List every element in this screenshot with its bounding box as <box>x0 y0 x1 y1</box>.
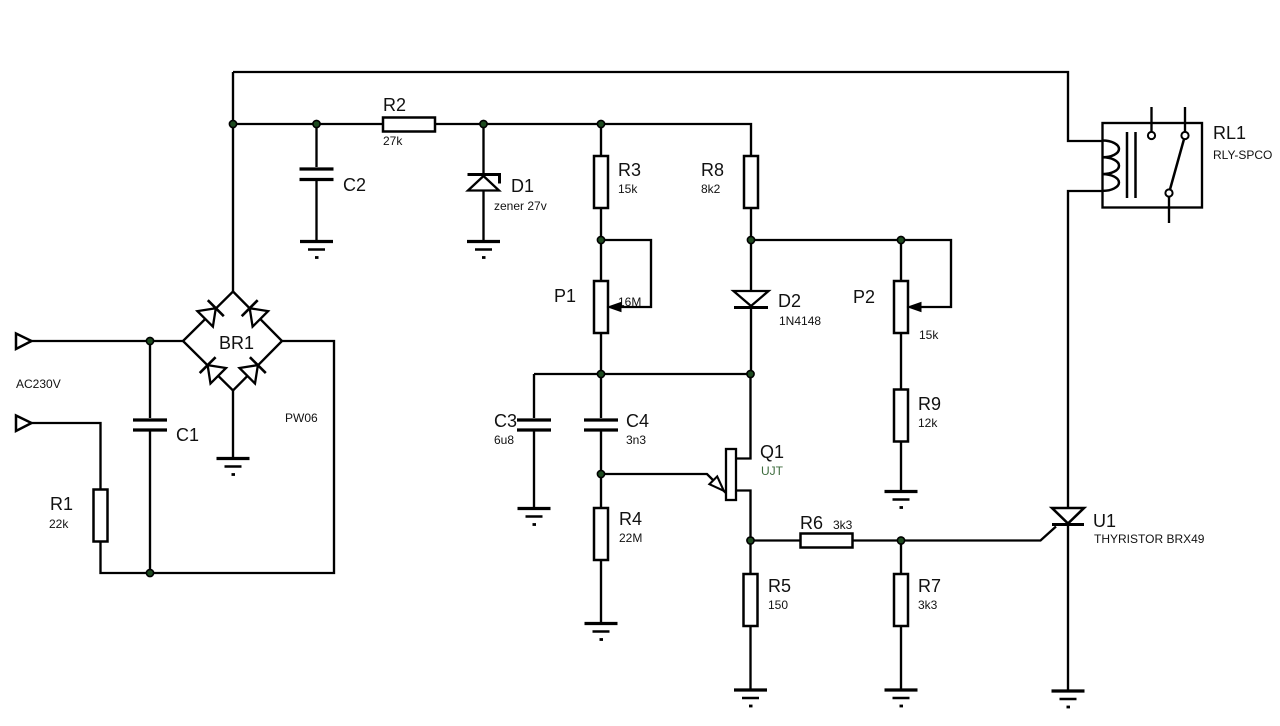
wire bridge top to rail <box>232 72 234 292</box>
node D1 top <box>480 120 487 127</box>
wire gate rail <box>751 539 801 541</box>
wire mid rail y374 <box>534 373 751 375</box>
svg-text:zener 27v: zener 27v <box>494 199 547 213</box>
svg-text:P1: P1 <box>554 286 576 306</box>
zener diode D1 <box>468 124 547 240</box>
svg-text:D1: D1 <box>511 176 534 196</box>
wire input1 to node <box>32 340 151 342</box>
node C2 top <box>313 120 320 127</box>
wire input2 to R1 <box>32 423 101 490</box>
resistor R2 <box>383 95 435 148</box>
relay RL1 <box>1103 107 1273 223</box>
thyristor U1 <box>1052 508 1205 690</box>
ground BR1 <box>217 459 250 475</box>
resistor R7 <box>894 541 941 689</box>
wire top rail <box>233 72 1103 141</box>
ground U1 <box>1052 691 1085 707</box>
svg-text:15k: 15k <box>618 182 638 196</box>
svg-text:R7: R7 <box>918 576 941 596</box>
wire BR1 bottom to ground <box>232 391 234 458</box>
svg-text:3k3: 3k3 <box>918 598 938 612</box>
wire P1 wiper loop <box>601 240 651 307</box>
svg-text:R8: R8 <box>701 160 724 180</box>
svg-text:R9: R9 <box>918 394 941 414</box>
svg-text:22M: 22M <box>619 531 642 545</box>
svg-text:P2: P2 <box>853 287 875 307</box>
node Q1 B1 <box>747 537 754 544</box>
svg-text:R1: R1 <box>50 494 73 514</box>
node Q1 B2 <box>747 370 754 377</box>
resistor R9 <box>894 390 941 491</box>
bridge BR1 <box>183 292 282 391</box>
svg-text:UJT: UJT <box>761 464 784 478</box>
svg-text:RL1: RL1 <box>1213 123 1246 143</box>
node junctions <box>146 120 904 576</box>
resistor R4 <box>594 474 642 622</box>
svg-text:150: 150 <box>768 598 788 612</box>
node C4 top <box>597 370 604 377</box>
resistor R8 <box>701 156 758 240</box>
svg-text:C3: C3 <box>494 411 517 431</box>
svg-text:BR1: BR1 <box>219 333 254 353</box>
wire relay coil bottom to thyristor <box>1068 191 1103 508</box>
potentiometer P1 <box>554 240 641 374</box>
svg-text:6u8: 6u8 <box>494 433 514 447</box>
diode D2 <box>734 240 822 374</box>
BR1 diode top-left <box>197 300 223 326</box>
wire R1 to bottom rail <box>101 542 151 574</box>
resistor R3 <box>594 124 641 240</box>
svg-text:R3: R3 <box>618 160 641 180</box>
svg-text:C1: C1 <box>176 425 199 445</box>
svg-text:R2: R2 <box>383 95 406 115</box>
ground R5 <box>734 690 767 706</box>
resistor R1 <box>49 490 108 542</box>
svg-text:1N4148: 1N4148 <box>779 314 821 328</box>
wire bottom rail to bridge right <box>150 341 334 573</box>
BR1 diode bottom-right <box>240 357 266 383</box>
ground R9 <box>885 492 918 508</box>
capacitor C3 <box>494 374 551 507</box>
svg-text:C2: C2 <box>343 175 366 195</box>
svg-text:AC230V: AC230V <box>16 377 61 391</box>
svg-text:R6: R6 <box>800 513 823 533</box>
ground C2 <box>300 242 333 258</box>
svg-text:Q1: Q1 <box>760 442 784 462</box>
svg-text:R5: R5 <box>768 576 791 596</box>
ground D1 <box>467 242 500 258</box>
ground R7 <box>885 690 918 706</box>
wire second rail y124 right <box>435 124 751 156</box>
wire second rail y124 left <box>233 123 383 125</box>
node R6-R7 <box>897 537 904 544</box>
svg-text:PW06: PW06 <box>285 411 318 425</box>
svg-text:15k: 15k <box>919 328 939 342</box>
input connector 2 <box>16 416 32 432</box>
capacitor C4 <box>584 374 649 474</box>
BR1 diode bottom-left <box>200 357 226 383</box>
svg-text:C4: C4 <box>626 411 649 431</box>
svg-text:D2: D2 <box>778 291 801 311</box>
node AC input <box>146 337 153 344</box>
svg-text:U1: U1 <box>1093 511 1116 531</box>
BR1 diode top-right <box>242 300 268 326</box>
wire P2 wiper loop <box>901 240 951 307</box>
input connector 1 <box>16 334 32 350</box>
ground R4 <box>585 624 618 640</box>
node emitter <box>597 470 604 477</box>
resistor R6 <box>800 513 853 548</box>
node R3 top <box>597 120 604 127</box>
node top-left rail <box>229 120 236 127</box>
wire D2 node to P2 <box>751 239 901 241</box>
svg-text:12k: 12k <box>918 416 938 430</box>
potentiometer P2 <box>853 240 939 390</box>
svg-text:THYRISTOR BRX49: THYRISTOR BRX49 <box>1094 532 1205 546</box>
capacitor C1 <box>133 341 199 573</box>
svg-text:8k2: 8k2 <box>701 182 721 196</box>
svg-text:RLY-SPCO: RLY-SPCO <box>1213 148 1272 162</box>
svg-text:22k: 22k <box>49 517 69 531</box>
node R8-D2 <box>747 236 754 243</box>
svg-text:3k3: 3k3 <box>833 518 853 532</box>
ground C3 <box>518 509 551 525</box>
node P2 top <box>897 236 904 243</box>
svg-text:27k: 27k <box>383 134 403 148</box>
node bottom rail <box>146 569 153 576</box>
P1 wiper arrow <box>608 303 621 312</box>
wire R6 to thyristor gate <box>853 527 1057 541</box>
svg-text:R4: R4 <box>619 509 642 529</box>
transistor Q1 (UJT) <box>601 374 784 541</box>
P2 wiper arrow <box>908 303 921 312</box>
resistor R5 <box>744 541 792 689</box>
capacitor C2 <box>300 124 367 240</box>
wire node to bridge left <box>150 340 183 342</box>
node R3-P1 <box>597 236 604 243</box>
svg-text:3n3: 3n3 <box>626 433 646 447</box>
